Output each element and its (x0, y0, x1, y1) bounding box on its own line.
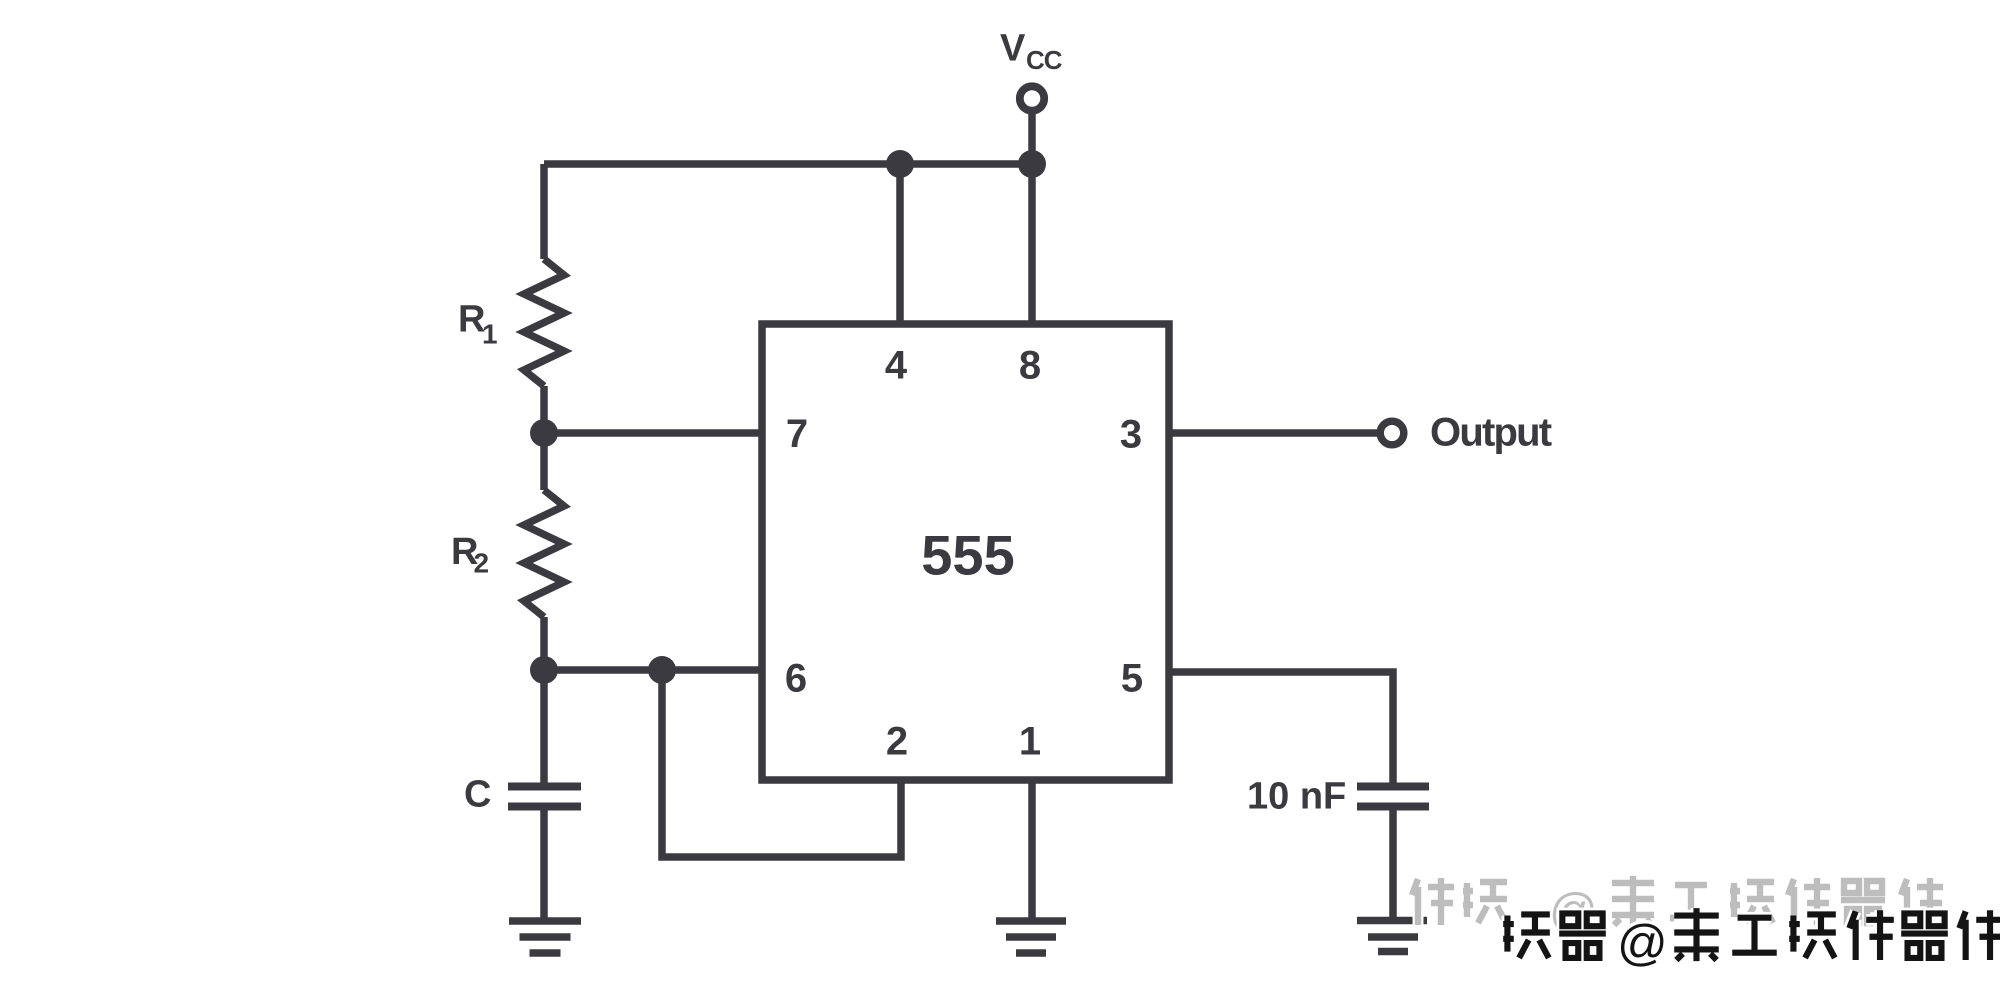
svg-text:10 nF: 10 nF (1247, 776, 1346, 818)
wire node to pin 6 (544, 666, 760, 674)
svg-text:Output: Output (1430, 411, 1552, 455)
wire top rail down to R1 (540, 164, 548, 259)
ground under capacitor C (509, 921, 581, 953)
wire capacitor 10nF to ground (1389, 810, 1397, 918)
terminal Output (1380, 421, 1404, 445)
svg-text:555: 555 (921, 524, 1014, 587)
wire node to pin 7 (544, 429, 760, 437)
wire pin 4 stub to top rail (896, 164, 904, 322)
watermark toutiao line (black): 头条 @李工谈元器件 (1503, 908, 2000, 971)
node R2/C junction at pin 6 (530, 656, 558, 684)
wire pin 1 to ground (1028, 781, 1036, 918)
svg-text:CC: CC (1026, 45, 1063, 75)
wire capacitor C to ground (540, 810, 548, 918)
watermark zhihu line (gray): 知乎 @李工谈元器件 (1412, 876, 1943, 938)
svg-text:1: 1 (482, 319, 498, 350)
ground under capacitor 10nF (1357, 921, 1427, 952)
svg-text:7: 7 (786, 412, 808, 456)
svg-text:2: 2 (886, 720, 908, 764)
wire pin 5 to capacitor 10nF (1171, 672, 1393, 783)
capacitor C3 10nF plates (1357, 787, 1429, 807)
wire pin 8 stub to top rail (1028, 164, 1036, 322)
node pin 2 tap junction (648, 656, 676, 684)
svg-text:5: 5 (1121, 657, 1143, 701)
node Vcc junction at pin 4 (886, 150, 914, 178)
wire R2 to capacitor C (through node at pin 6) (540, 617, 548, 783)
wire pin 3 to Output terminal (1171, 429, 1377, 437)
wire R1 to R2 (through node at pin 7) (540, 386, 548, 490)
svg-text:C: C (464, 774, 491, 816)
wire pin 2 loop from node (662, 670, 901, 857)
svg-text:4: 4 (885, 344, 908, 388)
resistor R2 (524, 490, 564, 617)
capacitor C plates (508, 787, 581, 807)
svg-text:V: V (1000, 28, 1026, 70)
ground under pin 1 (996, 921, 1066, 953)
wire top rail (Vcc node) (544, 160, 1032, 168)
svg-text:@: @ (1617, 915, 1668, 971)
wire Vcc terminal to top rail (1028, 112, 1036, 164)
svg-text:3: 3 (1120, 413, 1142, 457)
op-amp U1: 555 timer IC body (762, 324, 1169, 780)
node R1/R2 junction at pin 7 (530, 419, 558, 447)
svg-text:6: 6 (785, 657, 807, 701)
svg-text:8: 8 (1019, 344, 1041, 388)
terminal Vcc (1020, 86, 1044, 110)
resistor R1 (524, 259, 564, 386)
svg-text:2: 2 (474, 548, 490, 579)
svg-text:1: 1 (1019, 720, 1041, 764)
node Vcc junction at pin 8 (1018, 150, 1046, 178)
